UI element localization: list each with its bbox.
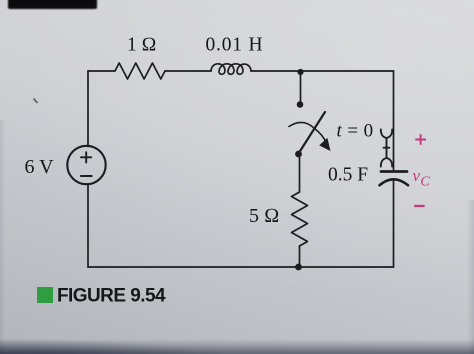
node A junction dot on top rail — [297, 69, 303, 75]
photo artifact: bottom shadow strip — [0, 339, 474, 354]
wire left rail upper: corner to source V1 — [87, 71, 89, 147]
wire left rail lower: source V1 to bottom corner — [87, 184, 89, 267]
photo artifact: left edge shading — [0, 120, 5, 354]
switch S1 actuation arc arrow — [289, 122, 326, 142]
inductor L1 0.01H coil — [211, 64, 251, 75]
svg-text:0.01 H: 0.01 H — [206, 35, 264, 56]
svg-text:t = 0: t = 0 — [337, 121, 374, 142]
capacitor voltage polarity plus — [415, 134, 426, 145]
svg-text:FIGURE 9.54: FIGURE 9.54 — [57, 286, 166, 307]
resistor R2 5ohm zigzag — [292, 192, 308, 246]
capacitor C1 curved plate — [380, 179, 409, 185]
photo artifact: black strip at top-left edge — [8, 0, 97, 9]
wire between R1 and inductor L1 — [165, 70, 211, 72]
photo artifact: bottom-left corner extra shadow — [0, 338, 270, 354]
photo artifact: right edge shading — [467, 200, 474, 354]
wire right rail lower: capacitor to bottom corner — [393, 181, 395, 267]
stray pen mark on paper — [34, 99, 38, 104]
switch top terminal dot — [297, 101, 304, 108]
wire R2 to bottom rail — [299, 246, 301, 267]
source V1 plus sign — [81, 152, 91, 162]
wire top-left: left rail top corner to resistor R1 — [88, 70, 115, 72]
source V1 minus sign — [81, 175, 92, 177]
wire inductor to top-right corner — [251, 70, 394, 72]
switch bottom terminal dot — [295, 151, 302, 158]
switch position marker (I-beam glyph) — [381, 129, 392, 166]
capacitor C1 top plate — [381, 170, 407, 173]
svg-text:0.5 F: 0.5 F — [328, 165, 368, 186]
switch S1 blade — [299, 112, 326, 154]
wire switch to resistor R2 — [299, 154, 301, 192]
svg-text:1 Ω: 1 Ω — [127, 35, 157, 56]
wire right rail upper: corner down to capacitor plate — [393, 71, 395, 172]
svg-text:vC: vC — [413, 166, 431, 190]
caption green square bullet — [37, 287, 53, 303]
switch arc arrowhead — [319, 138, 330, 151]
capacitor voltage polarity minus — [414, 205, 424, 207]
resistor R1 1ohm zigzag — [115, 63, 165, 79]
svg-text:6 V: 6 V — [25, 156, 55, 178]
svg-text:5 Ω: 5 Ω — [249, 205, 279, 227]
voltage source V1 circle — [67, 146, 105, 184]
wire switch branch stub from node A — [300, 72, 302, 102]
node B junction dot on bottom rail — [295, 264, 302, 271]
wire bottom rail — [88, 266, 394, 268]
